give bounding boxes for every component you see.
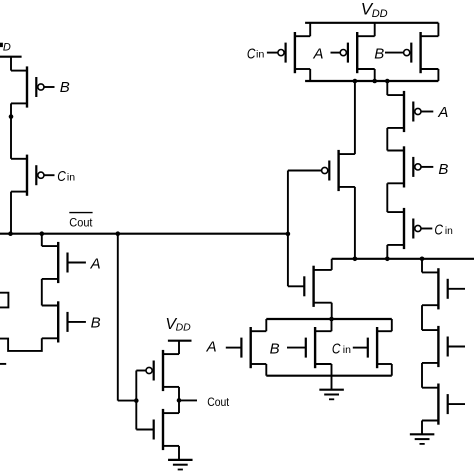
text VDD label top: [361, 0, 388, 20]
wire Q12 drain to Q13 source: [386, 128, 388, 151]
wire Q7 drain to rail: [309, 69, 311, 81]
wire M4 drain to top rail: [265, 319, 267, 331]
wire parallel box bottom rail: [266, 375, 392, 377]
wire rail to Q12 source: [386, 81, 388, 95]
svg-text:DD: DD: [372, 8, 388, 20]
pmos Q14 gate Cin: [387, 208, 432, 249]
junction bus with NMOS chain: [40, 231, 45, 236]
junction rail to right pmos stack: [385, 79, 390, 84]
wire Cout output tap: [179, 399, 197, 401]
svg-text:B: B: [270, 340, 280, 357]
wire Q7 source to VDD rail: [309, 23, 311, 36]
pmos Q5 of inverter: [136, 350, 179, 391]
wire inverter input horizontal: [118, 400, 137, 402]
wire Q1 drain to Q2 source: [10, 103, 12, 158]
svg-text:C: C: [247, 45, 256, 62]
ground of inverter: [168, 460, 193, 470]
wire Q8 source to VDD rail: [374, 23, 376, 36]
wire M9 source to M10 drain: [421, 363, 423, 388]
svg-text:Cout: Cout: [69, 215, 93, 229]
label Cin of Q14: [434, 222, 453, 239]
junction rail to Q8 drain: [372, 79, 377, 84]
pmos Q8 gate A: [331, 32, 375, 73]
text VDD label remnant (clipped at left edge): [0, 41, 11, 53]
wire mid rail node: [332, 258, 474, 260]
pmos Q12 gate A: [387, 91, 433, 132]
wire Q14 drain to mid rail: [386, 245, 388, 259]
wire VDD rail to Q1 source: [10, 57, 12, 71]
wire M5 drain to mid rail: [331, 259, 333, 270]
wire M2 source to left edge: [0, 338, 42, 351]
wire Q8 drain to rail: [374, 69, 376, 81]
junction mid rail with right nmos stack: [420, 257, 425, 262]
label node Cout-bar (overline): [69, 213, 93, 230]
wire M7 drain to top rail: [391, 319, 393, 331]
svg-text:Cout: Cout: [207, 395, 230, 409]
text VDD label of inverter: [165, 316, 191, 334]
ground of right stack: [410, 434, 435, 444]
svg-text:in: in: [343, 344, 351, 356]
svg-text:C: C: [57, 168, 66, 185]
wire parallel box top rail: [266, 318, 392, 320]
junction mid rail with Q10 drain: [353, 257, 358, 262]
wire M10 source to ground: [421, 421, 423, 435]
wire VDD rail (left, clipped): [0, 56, 22, 58]
wire M7 source to bottom rail: [391, 364, 393, 376]
pmos Q13 gate B: [387, 146, 433, 187]
wire M5 source to parallel box rail: [331, 303, 333, 319]
svg-text:DD: DD: [176, 322, 192, 334]
svg-text:A: A: [206, 338, 217, 355]
svg-text:C: C: [434, 222, 443, 239]
nmos M7 gate Cin: [353, 327, 392, 368]
label Cin of Q2: [57, 168, 75, 185]
junction bus with inverter input line: [116, 231, 121, 236]
nmos M6 gate B: [287, 327, 332, 368]
wire M8 source to M9 drain: [421, 305, 423, 330]
wire Q9 source to VDD rail: [437, 23, 439, 36]
svg-text:B: B: [438, 161, 448, 178]
wire common drain rail of top block: [305, 80, 438, 82]
svg-text:A: A: [313, 46, 324, 63]
wire bus to M1 drain: [41, 234, 43, 246]
wire Q2 drain to Cout-bar bus: [10, 192, 12, 234]
wire Cout-bar bus to inverter input: [117, 234, 119, 401]
svg-text:B: B: [60, 79, 70, 96]
svg-text:B: B: [91, 315, 101, 332]
wire M3 source to ground: [178, 446, 180, 460]
wire node Cout-bar horizontal bus: [0, 233, 288, 235]
junction node Cout output: [177, 398, 182, 403]
pmos Q7 gate Cin: [267, 32, 310, 73]
svg-text:C: C: [332, 340, 341, 357]
svg-text:D: D: [3, 41, 11, 53]
svg-text:in: in: [445, 225, 453, 237]
nmos M1 gate A: [42, 242, 86, 283]
nmos M9 (series stack): [422, 326, 465, 367]
wire Q5 drain to M3 drain: [178, 387, 180, 413]
wire box bottom rail to ground: [331, 376, 333, 390]
svg-text:in: in: [256, 49, 265, 61]
wire clipped gate lead at left edge: [0, 363, 6, 365]
wire VDD rail top: [305, 22, 438, 24]
junction mid rail with pmos stack: [385, 257, 390, 262]
svg-text:A: A: [90, 256, 101, 273]
wire M6 source to bottom rail: [331, 364, 333, 376]
wire Q9 drain to rail: [437, 69, 439, 81]
nmos M2 gate B: [42, 301, 86, 342]
junction rail to Q10: [353, 79, 358, 84]
pmos Q10 gate Cout-bar: [288, 150, 355, 191]
wire Q10 gate line vertical: [287, 171, 289, 287]
wire inverter gate bus: [135, 371, 137, 430]
junction box top rail with M5: [329, 317, 334, 322]
junction bus with Q10 gate line: [286, 232, 291, 237]
wire Q13 drain to Q14 source: [386, 183, 388, 212]
nmos M3 of inverter: [136, 409, 179, 450]
nmos M8 (series stack): [422, 268, 465, 309]
wire mid rail to M8 drain: [421, 259, 423, 273]
junction bus with left branch: [8, 231, 13, 236]
wire M6 drain to top rail: [331, 319, 333, 331]
nmos M4 gate A: [241, 327, 266, 368]
wire VDD to Q5 source: [178, 341, 180, 354]
wire M4 source to bottom rail: [265, 364, 267, 376]
pmos Q2 gate Cin: [11, 155, 55, 196]
wire VDD rail of inverter: [168, 340, 192, 342]
svg-text:A: A: [437, 104, 448, 121]
svg-text:B: B: [374, 46, 384, 63]
pmos Q9 gate B: [385, 32, 438, 73]
svg-text:in: in: [67, 171, 75, 183]
junction inverter input node: [134, 398, 139, 403]
label Cin of Q7: [247, 45, 265, 62]
pmos Q1 gate B: [11, 66, 55, 107]
label Cin of M7: [332, 340, 351, 357]
junction node on left branch: [9, 114, 14, 119]
ground of parallel box: [319, 390, 344, 400]
wire Q10 drain down to mid rail: [354, 187, 356, 259]
nmos M10 (series stack): [422, 384, 465, 425]
wire A label lead to M4 gate: [226, 347, 242, 349]
wire top rail down to Q10 source: [354, 81, 356, 154]
wire M1 source to M2 drain: [41, 279, 43, 306]
wire clipped transistor stubs at left edge: [0, 293, 8, 308]
nmos M5 gate Cout-bar: [288, 266, 332, 307]
